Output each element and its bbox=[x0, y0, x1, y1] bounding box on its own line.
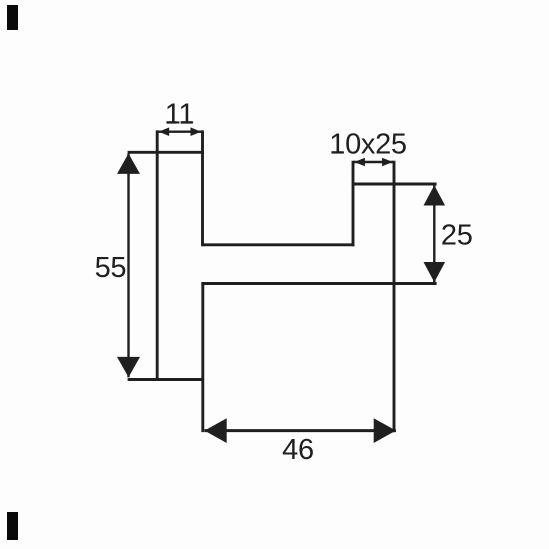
svg-text:10x25: 10x25 bbox=[329, 129, 407, 161]
stub right edge full length bbox=[393, 161, 396, 432]
svg-text:25: 25 bbox=[441, 220, 473, 252]
profile left bar top face with extension line bbox=[128, 151, 204, 154]
arrowhead 25 bottom bbox=[424, 262, 446, 282]
dimension line 55 bbox=[127, 154, 129, 378]
arrowhead 25 top bbox=[424, 185, 446, 205]
svg-text:55: 55 bbox=[95, 252, 127, 284]
label 10x25 digit-1 foot serif bbox=[332, 151, 343, 153]
bottom left leg bbox=[201, 282, 204, 432]
stub left edge bbox=[352, 161, 355, 247]
crossbar bottom face with extension to 25 dimension bbox=[201, 282, 436, 285]
scan artifact bar top-left bbox=[7, 5, 18, 30]
scan artifact bar bottom-left bbox=[7, 512, 18, 540]
dimension line 10 bbox=[353, 161, 394, 163]
svg-text:11: 11 bbox=[165, 99, 195, 131]
dimension line 11 bbox=[157, 130, 202, 132]
svg-text:46: 46 bbox=[282, 434, 314, 466]
arrowhead 55 bottom bbox=[117, 357, 140, 377]
dimension line 46 bbox=[205, 429, 396, 432]
arrowhead 55 top bbox=[117, 154, 140, 174]
arrowhead 10 left bbox=[354, 158, 365, 167]
arrowhead 11 right bbox=[191, 127, 202, 136]
dimension line 25 bbox=[433, 185, 435, 282]
arrowhead 46 right bbox=[374, 418, 396, 443]
profile left bar right edge bbox=[201, 130, 204, 246]
arrowhead 46 left bbox=[205, 418, 227, 443]
profile left bar bottom face with extension line bbox=[128, 378, 204, 381]
label 11 digit foot serifs bbox=[167, 121, 193, 123]
arrowhead 11 left bbox=[159, 127, 170, 136]
stub top face with extension to 25 dimension bbox=[352, 183, 437, 186]
crossbar top face bbox=[203, 243, 355, 246]
arrowhead 10 right bbox=[382, 158, 393, 167]
profile left bar left edge bbox=[156, 130, 159, 381]
